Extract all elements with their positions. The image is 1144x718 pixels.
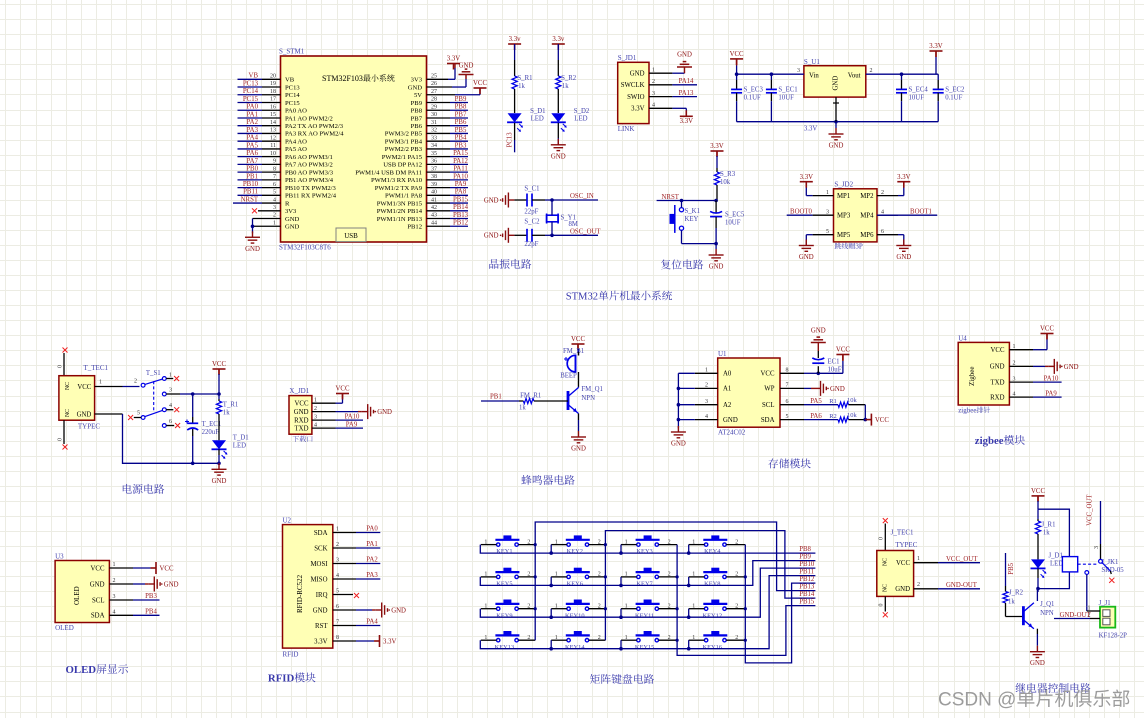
relay coil J_JK1: [1062, 557, 1077, 572]
wire: [678, 404, 694, 406]
wire: [877, 214, 937, 216]
wire: [238, 132, 263, 134]
wire: [218, 374, 220, 394]
svg-text:3.3V: 3.3V: [710, 143, 723, 150]
svg-text:3: 3: [169, 388, 172, 394]
svg-text:PA3: PA3: [366, 572, 378, 579]
junction: [735, 72, 739, 76]
svg-text:PWM1/1N PB13: PWM1/1N PB13: [377, 216, 423, 223]
push button KEY7: [636, 572, 660, 579]
wire: [450, 194, 468, 196]
wire: [481, 400, 519, 402]
connector X_JD1 download port: [289, 396, 312, 435]
wire: [715, 201, 717, 214]
svg-text:PB8: PB8: [411, 108, 423, 115]
svg-text:PB4: PB4: [455, 135, 467, 142]
svg-text:PB0: PB0: [246, 166, 258, 173]
wire: [688, 545, 690, 554]
svg-text:20: 20: [270, 74, 276, 80]
svg-text:PWM1/2 TX PA9: PWM1/2 TX PA9: [375, 185, 423, 192]
wire: [1054, 618, 1090, 620]
svg-text:NC: NC: [65, 382, 71, 390]
svg-text:LED: LED: [233, 443, 246, 450]
wire: [192, 394, 194, 417]
svg-text:PA9: PA9: [346, 421, 358, 428]
wire: [805, 187, 807, 196]
svg-text:S_R1: S_R1: [517, 75, 532, 82]
section label: [768, 458, 810, 468]
svg-text:0: 0: [879, 604, 885, 607]
wire: [95, 386, 123, 388]
RFID module U2 RFID-RC522: [283, 525, 333, 649]
svg-text:KEY13: KEY13: [495, 644, 515, 651]
wire: [450, 148, 468, 150]
junction: [549, 615, 553, 619]
svg-text:KEY15: KEY15: [635, 644, 655, 651]
wire: [450, 156, 468, 158]
svg-text:STM32F103: STM32F103: [322, 74, 363, 83]
svg-text:KEY2: KEY2: [567, 548, 583, 555]
svg-text:VCC: VCC: [761, 371, 775, 378]
svg-text:BOOT1: BOOT1: [910, 208, 932, 215]
svg-text:PB9: PB9: [455, 96, 467, 103]
wire: [578, 349, 580, 356]
svg-text:LED: LED: [574, 116, 587, 123]
wire: [427, 163, 451, 165]
LED J_D1: [1031, 559, 1045, 568]
push button KEY12: [703, 604, 727, 611]
junction: [191, 392, 195, 396]
svg-text:4: 4: [113, 610, 116, 616]
wire: [770, 93, 772, 101]
junction: [817, 372, 821, 376]
svg-text:4: 4: [336, 573, 339, 579]
push button S_K1: [675, 205, 684, 233]
wire: [238, 102, 263, 104]
svg-text:A1: A1: [723, 386, 731, 393]
svg-text:GND: GND: [551, 153, 566, 160]
svg-text:T_S1: T_S1: [146, 370, 161, 377]
svg-text:J_TEC1: J_TEC1: [891, 529, 914, 537]
svg-text:3.3v: 3.3v: [552, 36, 564, 43]
wire: [238, 187, 263, 189]
wire: [689, 608, 705, 610]
svg-text:GND: GND: [671, 441, 686, 448]
wire: [450, 109, 468, 111]
svg-text:AT24C02: AT24C02: [718, 429, 746, 437]
svg-text:26: 26: [431, 81, 437, 87]
svg-text:27: 27: [431, 89, 437, 95]
wire: [133, 583, 145, 585]
svg-text:zigbee: zigbee: [975, 435, 1004, 447]
svg-text:PB9: PB9: [799, 554, 811, 561]
wire: [262, 117, 281, 119]
svg-text:PA3 RX AO PWM2/4: PA3 RX AO PWM2/4: [285, 131, 344, 138]
svg-text:36: 36: [431, 159, 437, 165]
wire: [677, 545, 815, 656]
svg-text:31: 31: [431, 120, 437, 126]
svg-text:PB12: PB12: [407, 224, 422, 231]
svg-text:TXD: TXD: [295, 425, 309, 432]
svg-text:PA2 TX AO PWM2/3: PA2 TX AO PWM2/3: [285, 123, 344, 130]
svg-text:PB13: PB13: [799, 584, 815, 591]
push button KEY11: [636, 604, 660, 611]
svg-text:S_K1: S_K1: [685, 208, 701, 215]
no-connect X: [128, 415, 133, 420]
svg-text:4: 4: [705, 414, 708, 420]
wire: [678, 372, 694, 374]
wire: [1045, 365, 1048, 367]
svg-text:220uF: 220uF: [202, 429, 220, 436]
svg-text:MP5: MP5: [837, 232, 851, 239]
svg-text:PA5 AO: PA5 AO: [285, 146, 307, 153]
wire: [133, 567, 151, 569]
svg-text:GND: GND: [723, 417, 738, 424]
svg-text:11: 11: [270, 143, 276, 149]
wire: [695, 372, 718, 374]
svg-text:VCC: VCC: [1040, 326, 1054, 333]
svg-text:U1: U1: [718, 350, 727, 358]
svg-text:1: 1: [1013, 344, 1016, 350]
svg-text:PWM2/1 PA15: PWM2/1 PA15: [382, 154, 423, 161]
svg-text:FM_R1: FM_R1: [520, 392, 541, 399]
push button KEY6: [566, 572, 590, 579]
wire: [659, 608, 678, 610]
svg-text:T_EC1: T_EC1: [202, 421, 222, 428]
power VCC: [866, 414, 871, 426]
svg-text:SWCLK: SWCLK: [621, 82, 645, 89]
wire: [672, 72, 684, 74]
wire: [649, 72, 672, 74]
resistor R1: [838, 402, 849, 407]
svg-text:PB13: PB13: [453, 212, 469, 219]
svg-text:3: 3: [273, 205, 276, 211]
wire: [518, 576, 535, 578]
ground: [148, 577, 160, 592]
svg-text:PB10: PB10: [799, 561, 815, 568]
wire: [262, 78, 281, 80]
svg-text:PA2: PA2: [366, 557, 378, 564]
wire: [262, 94, 281, 96]
svg-text:PB12: PB12: [799, 576, 815, 583]
wire: [63, 420, 65, 444]
wire: [688, 577, 690, 586]
svg-text:22pF: 22pF: [524, 241, 538, 248]
wire: [514, 199, 527, 201]
svg-text:VCC: VCC: [896, 560, 910, 567]
wire: [1037, 519, 1039, 521]
wire: [736, 66, 738, 75]
wire: [450, 210, 468, 212]
push button KEY14: [566, 635, 590, 642]
svg-text:GND: GND: [571, 446, 586, 453]
svg-text:PWM2/2 PB3: PWM2/2 PB3: [385, 146, 423, 153]
wire: [145, 583, 148, 585]
svg-text:PA10: PA10: [1044, 375, 1059, 382]
svg-text:RFID: RFID: [268, 673, 295, 685]
svg-text:6: 6: [881, 229, 884, 235]
transistor FM_Q1 NPN: [567, 391, 570, 410]
svg-text:3.3V: 3.3V: [800, 174, 813, 181]
svg-text:PA0: PA0: [366, 526, 378, 533]
USB connector J_TEC1 TYPEC: [877, 551, 914, 597]
wire: [842, 361, 844, 373]
svg-text:S_JD2: S_JD2: [834, 181, 853, 189]
svg-text:9: 9: [273, 159, 276, 165]
svg-text:GND: GND: [391, 607, 406, 614]
wire: [450, 187, 468, 189]
svg-text:37: 37: [431, 166, 437, 172]
svg-text:VCC: VCC: [91, 565, 105, 572]
wire: [481, 608, 497, 610]
svg-text:GND: GND: [212, 478, 227, 485]
wire: [1086, 575, 1088, 607]
ground: [1030, 646, 1045, 658]
part name: [958, 407, 990, 415]
svg-text:3: 3: [1094, 546, 1100, 549]
svg-text:PA6: PA6: [247, 150, 259, 157]
svg-text:PC13: PC13: [506, 132, 513, 148]
svg-text:STM32F103C8T6: STM32F103C8T6: [279, 244, 331, 252]
wire: [736, 101, 738, 122]
svg-text:WP: WP: [764, 386, 774, 393]
svg-text:PB12: PB12: [453, 220, 469, 227]
wire: [262, 156, 281, 158]
wire: [514, 123, 516, 140]
no-connect X: [174, 376, 179, 381]
junction: [714, 242, 718, 246]
wire: [455, 94, 480, 96]
wire: [333, 563, 356, 565]
wire: [780, 404, 804, 406]
wire: [342, 394, 344, 399]
section label: [66, 664, 129, 676]
junction: [191, 462, 195, 466]
power VCC: [336, 394, 349, 400]
power 3.3V: [375, 635, 380, 647]
wire: [557, 44, 559, 60]
svg-text:SCL: SCL: [762, 402, 774, 409]
wire: [685, 111, 687, 116]
junction: [680, 199, 684, 203]
wire: [557, 89, 559, 113]
junction: [550, 198, 554, 202]
wire: [715, 244, 717, 249]
wire: [238, 148, 263, 150]
ground: [245, 231, 260, 243]
wire: [589, 608, 606, 610]
wire: [726, 639, 745, 641]
svg-text:1: 1: [826, 190, 829, 196]
svg-text:NC: NC: [883, 584, 889, 592]
junction: [744, 607, 747, 610]
wire: [695, 387, 718, 389]
svg-text:PC14: PC14: [243, 88, 259, 95]
svg-text:FM_B1: FM_B1: [563, 348, 584, 355]
wire: [166, 409, 173, 411]
wire: [678, 419, 694, 421]
module U4 Zigbee: [958, 342, 1009, 405]
svg-text:S_U1: S_U1: [804, 58, 820, 66]
part name: [835, 243, 863, 251]
wire: [450, 125, 468, 127]
svg-text:KEY4: KEY4: [704, 548, 721, 555]
wire: [804, 372, 818, 374]
wire: [454, 64, 456, 69]
svg-text:PA4 AO: PA4 AO: [285, 138, 307, 145]
svg-text:3.3V: 3.3V: [929, 43, 942, 50]
LED S_D2: [551, 113, 565, 122]
part name: [293, 436, 313, 442]
wire: [817, 351, 819, 358]
svg-text:VCC: VCC: [875, 417, 889, 424]
junction: [744, 575, 747, 578]
svg-text:SDA: SDA: [314, 530, 328, 537]
svg-text:KEY5: KEY5: [496, 581, 512, 588]
svg-text:4: 4: [273, 197, 276, 203]
svg-text:0.1UF: 0.1UF: [945, 94, 962, 101]
junction: [619, 584, 623, 588]
svg-text:7: 7: [786, 383, 789, 389]
wire: [649, 107, 672, 109]
wire: [811, 387, 815, 389]
wire: [333, 547, 356, 549]
svg-text:2: 2: [1013, 361, 1016, 367]
svg-text:7: 7: [273, 174, 276, 180]
svg-text:PC15: PC15: [285, 100, 300, 107]
wire: [578, 372, 580, 387]
push button KEY16: [703, 635, 727, 642]
wire: [238, 163, 263, 165]
svg-text:KEY11: KEY11: [635, 612, 654, 619]
wire: [109, 583, 133, 585]
svg-text:J_J1: J_J1: [1099, 600, 1111, 607]
wire: [551, 639, 567, 641]
svg-text:44: 44: [431, 220, 437, 226]
wire: [1038, 509, 1069, 556]
svg-text:PA12: PA12: [453, 158, 468, 165]
svg-text:PB8: PB8: [455, 104, 467, 111]
wire: [659, 576, 678, 578]
svg-text:2: 2: [705, 383, 708, 389]
junction: [744, 639, 747, 642]
svg-text:PC13: PC13: [243, 80, 259, 87]
wire: [1110, 571, 1111, 574]
svg-text:13: 13: [270, 128, 276, 134]
wire: [689, 639, 705, 641]
junction: [676, 607, 679, 610]
wire: [1100, 544, 1102, 559]
svg-text:GND: GND: [833, 76, 840, 91]
svg-text:S_EC2: S_EC2: [945, 87, 965, 94]
wire: [688, 609, 690, 618]
svg-text:PA1: PA1: [247, 111, 258, 118]
svg-text:GND: GND: [90, 581, 105, 588]
wire: [578, 414, 580, 421]
wire: [903, 187, 905, 196]
wire: [427, 225, 451, 227]
no-connect X: [174, 407, 179, 412]
svg-text:GND: GND: [630, 71, 645, 78]
svg-text:5: 5: [786, 414, 789, 420]
svg-text:3: 3: [826, 209, 829, 215]
capacitor EC1: [812, 358, 824, 360]
wire: [1037, 568, 1039, 578]
wire: [109, 599, 133, 601]
svg-text:OLED: OLED: [66, 664, 97, 676]
no-connect X: [883, 612, 888, 617]
wire: [657, 200, 717, 202]
wire: [333, 578, 356, 580]
pin number 1: [833, 102, 839, 104]
wire: [937, 74, 939, 80]
svg-text:KEY3: KEY3: [636, 548, 652, 555]
svg-text:KEY12: KEY12: [703, 612, 723, 619]
wire: [95, 413, 123, 415]
wire: [780, 419, 804, 421]
svg-text:PA0 AO: PA0 AO: [285, 108, 307, 115]
svg-text:Vin: Vin: [809, 72, 819, 79]
wire: [805, 235, 807, 246]
svg-text:GND: GND: [408, 84, 423, 91]
wire: [689, 544, 705, 546]
junction: [770, 72, 774, 76]
svg-text:4: 4: [652, 103, 655, 109]
svg-text:GND: GND: [313, 607, 328, 614]
wire: [550, 640, 552, 649]
svg-text:GND: GND: [285, 224, 300, 231]
wire: [238, 117, 263, 119]
wire: [233, 202, 262, 204]
wire: [804, 387, 811, 389]
wire: [356, 640, 374, 642]
wire: [551, 608, 567, 610]
wire: [333, 609, 356, 611]
svg-text:1k: 1k: [518, 83, 525, 90]
wire: [1005, 603, 1007, 617]
resistor R2: [838, 417, 849, 422]
svg-text:1k: 1k: [1008, 599, 1015, 606]
wire: [123, 386, 140, 388]
wire: [550, 545, 552, 554]
svg-text:KEY16: KEY16: [703, 644, 723, 651]
svg-text:S_C1: S_C1: [524, 186, 539, 193]
ground: [1048, 359, 1060, 374]
wire: [192, 436, 194, 463]
wire: [427, 94, 456, 96]
wire: [480, 568, 815, 617]
wire: [262, 163, 281, 165]
plus mark: [185, 420, 189, 424]
svg-text:28: 28: [431, 97, 437, 103]
svg-text:MISO: MISO: [311, 576, 328, 583]
wire: [589, 544, 606, 546]
svg-text:TXD: TXD: [991, 379, 1005, 386]
wire: [1037, 501, 1039, 509]
svg-text:0: 0: [58, 365, 64, 368]
chip title STM32F103: [322, 74, 395, 83]
wire: [836, 121, 938, 123]
wire: [649, 84, 672, 86]
terminal block J_J1: [1100, 607, 1115, 628]
svg-text:S_C2: S_C2: [524, 219, 540, 226]
svg-text:SWIO: SWIO: [627, 94, 644, 101]
wire: [649, 96, 672, 98]
push button KEY13: [495, 635, 519, 642]
power VCC: [213, 369, 226, 375]
wire: [550, 609, 552, 618]
wire: [450, 102, 468, 104]
